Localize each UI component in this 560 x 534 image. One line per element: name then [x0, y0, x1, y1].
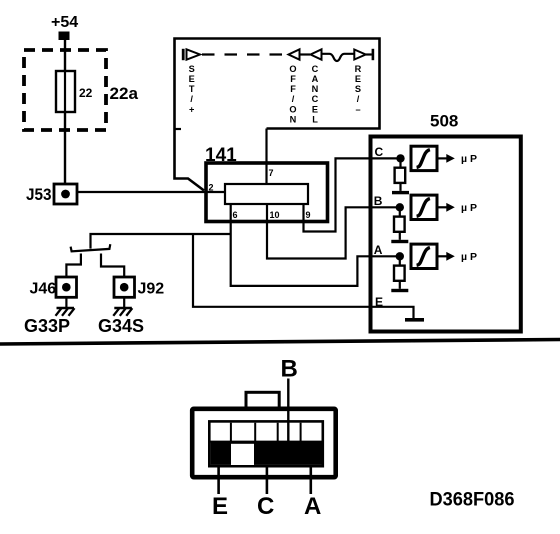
- wire pin 6 to channel A: [231, 204, 400, 286]
- white cell: [231, 444, 254, 465]
- control module 141 inner block: [225, 184, 308, 204]
- svg-text:9: 9: [306, 210, 311, 220]
- arrow SET/+: [187, 49, 201, 59]
- svg-text:A: A: [374, 243, 383, 257]
- wire pin 10 to channel B: [267, 204, 400, 259]
- dashed actuation line: [202, 53, 288, 55]
- label OFF/ON vertical: [289, 64, 296, 124]
- wire +54 to J53: [64, 40, 66, 184]
- pin 6 label: [233, 210, 238, 220]
- pin 9 label: [306, 210, 311, 220]
- svg-text:J53: J53: [26, 185, 52, 204]
- node C label: [375, 145, 384, 159]
- arrow RES/-: [354, 50, 365, 60]
- svg-text:E: E: [355, 74, 361, 84]
- ground C: [392, 191, 409, 194]
- svg-text:J92: J92: [138, 281, 165, 298]
- label 22: [79, 86, 93, 100]
- switch line left end bar: [182, 49, 185, 60]
- node A label: [374, 243, 383, 257]
- sensor box A: [411, 244, 437, 268]
- svg-text:G33P: G33P: [24, 316, 70, 336]
- svg-text:N: N: [290, 114, 297, 124]
- sensor box C: [411, 146, 437, 170]
- arrow CANCEL: [311, 49, 322, 59]
- label G34S: [98, 316, 144, 336]
- svg-text:E: E: [375, 295, 383, 309]
- label CANCEL vertical: [312, 64, 319, 124]
- wire E: [217, 466, 220, 494]
- cell dividers: [209, 423, 322, 442]
- svg-text:B: B: [374, 194, 383, 208]
- wire pin 6 branch to switch: [91, 234, 231, 249]
- node A junction: [396, 252, 404, 260]
- node B junction: [396, 203, 404, 211]
- svg-text:C: C: [375, 145, 384, 159]
- svg-text:S: S: [189, 64, 195, 74]
- svg-text:S: S: [355, 84, 361, 94]
- node C junction: [396, 154, 404, 162]
- svg-text:+54: +54: [51, 14, 78, 31]
- wire pin 9 to channel C: [304, 158, 401, 231]
- wire C: [266, 466, 269, 494]
- wire J53 to pin 2 of 141: [77, 191, 225, 193]
- svg-text:E: E: [189, 74, 195, 84]
- pin 7 wire: [265, 129, 267, 185]
- resistor B: [394, 207, 405, 240]
- resistor A: [394, 256, 405, 289]
- svg-text:/: /: [190, 94, 193, 104]
- sensor box B: [411, 195, 437, 219]
- wire: [366, 53, 372, 55]
- svg-text:µP: µP: [461, 153, 480, 165]
- svg-text:E: E: [312, 104, 318, 114]
- svg-text:G34S: G34S: [98, 316, 144, 336]
- label uP A: [461, 251, 480, 263]
- svg-text:F: F: [290, 84, 296, 94]
- label SET/+ vertical: [189, 64, 195, 114]
- pin 10 label: [270, 210, 280, 220]
- chassis ground G34S: [113, 297, 132, 316]
- control module 141 box: [206, 163, 328, 222]
- connector tab: [246, 392, 279, 409]
- pin 7 label: [269, 168, 274, 178]
- label 508: [430, 112, 458, 131]
- wire B inside: [287, 421, 289, 448]
- label 141: [205, 145, 237, 166]
- label J46: [30, 281, 57, 298]
- terminal +54 square: [59, 32, 70, 41]
- connector housing: [192, 409, 336, 477]
- wire B: [287, 379, 289, 451]
- svg-text:/: /: [357, 94, 360, 104]
- svg-text:O: O: [289, 64, 296, 74]
- svg-text:508: 508: [430, 112, 458, 131]
- svg-text:N: N: [312, 84, 319, 94]
- label C: [257, 493, 274, 520]
- svg-text:22a: 22a: [110, 84, 139, 103]
- svg-text:T: T: [189, 84, 195, 94]
- fuse S22: [56, 71, 75, 112]
- wire: [300, 53, 311, 55]
- svg-text:C: C: [312, 64, 319, 74]
- connector J92: [114, 277, 135, 297]
- ground E: [405, 318, 424, 322]
- label J92: [138, 281, 165, 298]
- pin 2 label: [209, 183, 214, 193]
- label J53: [26, 185, 52, 204]
- divider line: [0, 340, 560, 345]
- svg-text:D368F086: D368F086: [430, 490, 515, 511]
- wire A: [309, 466, 312, 494]
- wire with V notch: [322, 54, 355, 61]
- connector J46: [56, 277, 77, 297]
- resistor C: [395, 158, 406, 191]
- svg-text:C: C: [312, 94, 319, 104]
- ground A: [391, 289, 408, 292]
- steering wheel switch module outline: [175, 39, 380, 191]
- svg-text:2: 2: [209, 183, 214, 193]
- label uP C: [461, 153, 480, 165]
- svg-text:A: A: [312, 74, 319, 84]
- label uP B: [461, 202, 480, 214]
- part number D368F086: [430, 490, 515, 511]
- arrow to uP A: [437, 252, 455, 261]
- svg-text:22: 22: [79, 86, 93, 100]
- connector cavity: [209, 421, 322, 466]
- ground B: [391, 240, 408, 243]
- instrument cluster 508 box: [371, 137, 521, 332]
- node E label: [375, 295, 383, 309]
- switch actuator bar: [71, 244, 111, 251]
- svg-text:A: A: [304, 493, 321, 520]
- label RES/- vertical: [355, 64, 362, 114]
- switch contact to J46: [66, 254, 81, 278]
- svg-text:µP: µP: [461, 202, 480, 214]
- svg-text:7: 7: [269, 168, 274, 178]
- svg-text:J46: J46: [30, 281, 57, 298]
- connector J53: [54, 184, 77, 204]
- svg-text:µP: µP: [461, 251, 480, 263]
- svg-text:+: +: [189, 104, 194, 114]
- wire switch branch to E: [193, 234, 414, 318]
- label A: [304, 493, 321, 520]
- svg-text:E: E: [212, 493, 228, 520]
- terminal +54 label: [51, 14, 78, 31]
- chassis ground G33P: [56, 297, 75, 316]
- switch contact to J92: [101, 254, 124, 278]
- fuse holder 22a dashed box: [24, 50, 106, 130]
- label B: [281, 356, 298, 383]
- label E: [212, 493, 228, 520]
- arrow to uP C: [437, 154, 455, 163]
- svg-text:L: L: [312, 114, 318, 124]
- svg-text:10: 10: [270, 210, 280, 220]
- black cells row: [211, 442, 322, 465]
- arrow OFF/ON: [289, 49, 300, 59]
- label 22a: [110, 84, 139, 103]
- label G33P: [24, 316, 70, 336]
- node B label: [374, 194, 383, 208]
- svg-text:6: 6: [233, 210, 238, 220]
- svg-text:/: /: [292, 94, 295, 104]
- svg-text:R: R: [355, 64, 362, 74]
- svg-text:O: O: [289, 104, 296, 114]
- svg-text:B: B: [281, 356, 298, 383]
- arrow to uP B: [437, 203, 455, 212]
- switch line right end bar: [372, 49, 375, 60]
- svg-text:–: –: [355, 104, 360, 114]
- svg-text:C: C: [257, 493, 274, 520]
- svg-text:F: F: [290, 74, 296, 84]
